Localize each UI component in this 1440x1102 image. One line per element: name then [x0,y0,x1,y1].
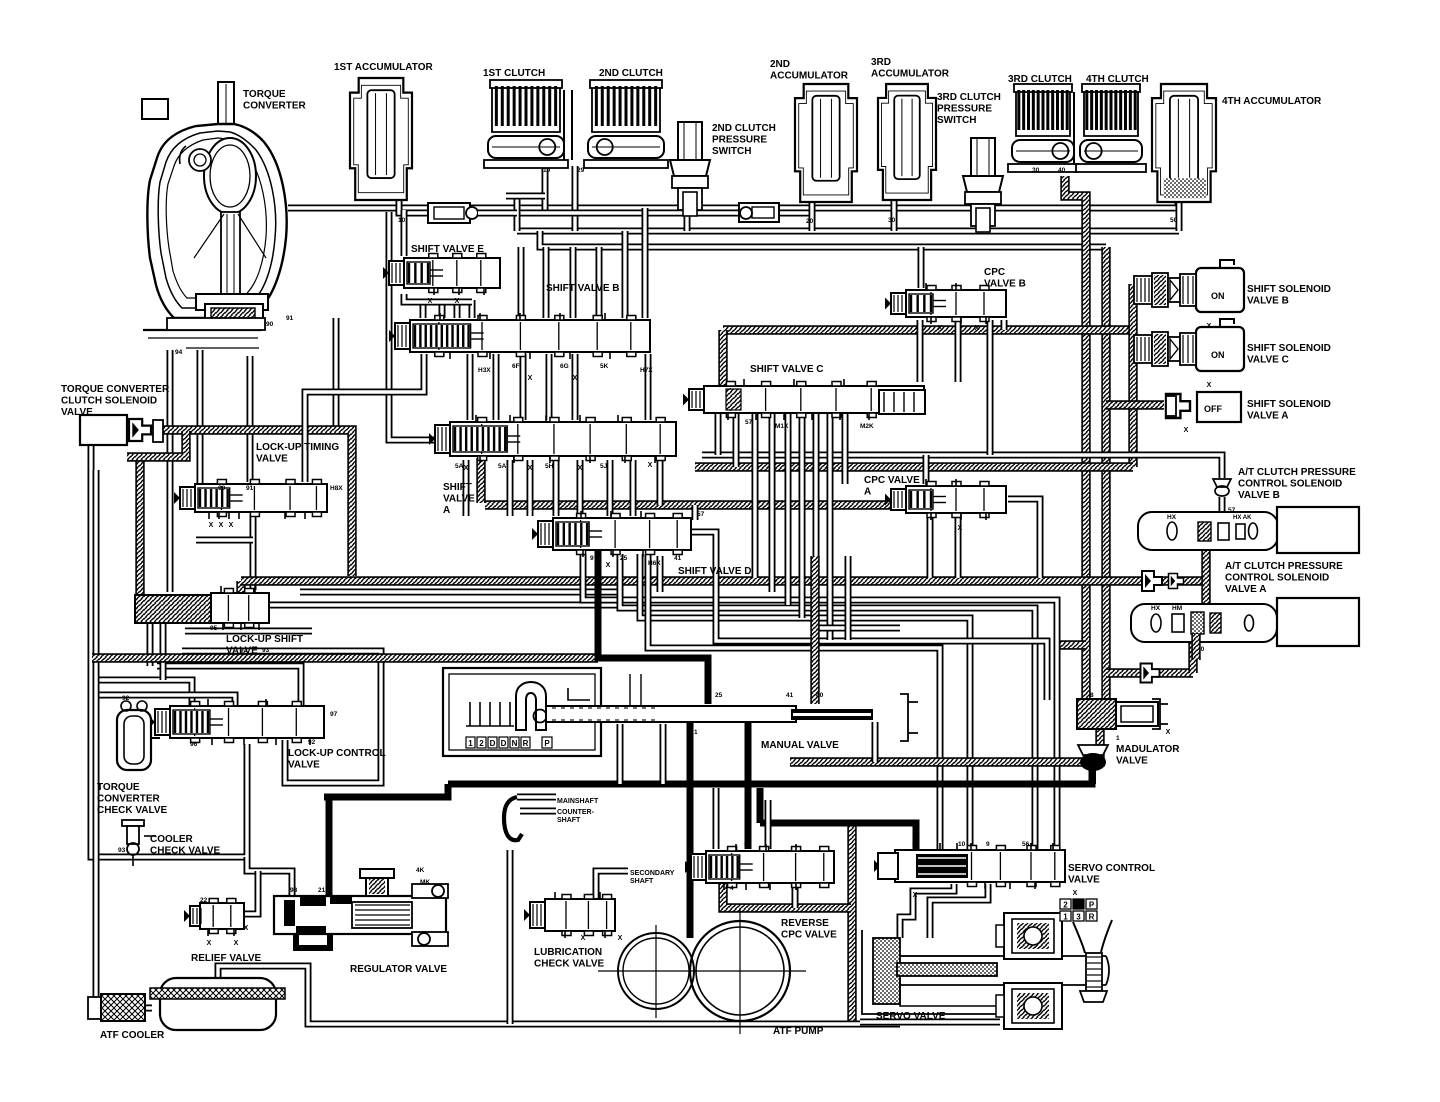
svg-text:X: X [464,465,469,472]
svg-text:SHIFT SOLENOID: SHIFT SOLENOID [1247,343,1331,354]
svg-text:CHECK VALVE: CHECK VALVE [150,846,221,857]
svg-text:SHIFT VALVE C: SHIFT VALVE C [750,364,824,375]
svg-text:1: 1 [468,739,473,748]
svg-text:20: 20 [806,218,814,225]
svg-text:X: X [234,940,239,947]
svg-text:A: A [864,487,871,498]
svg-text:2ND: 2ND [770,59,790,70]
svg-text:4: 4 [1076,901,1081,910]
svg-text:X: X [455,298,460,305]
svg-text:M2K: M2K [860,423,874,430]
svg-text:X: X [207,940,212,947]
svg-text:SHIFT VALVE D: SHIFT VALVE D [678,566,752,577]
svg-text:93: 93 [262,647,270,654]
svg-text:ATF PUMP: ATF PUMP [773,1026,824,1037]
svg-text:HX AK: HX AK [1233,515,1252,521]
svg-text:MANUAL VALVE: MANUAL VALVE [761,740,839,751]
svg-text:25: 25 [715,692,723,699]
svg-text:VALVE: VALVE [61,407,93,418]
svg-text:SERVO VALVE: SERVO VALVE [876,1011,946,1022]
svg-text:2ND CLUTCH: 2ND CLUTCH [712,123,776,134]
svg-text:92: 92 [308,739,316,746]
svg-text:A/T CLUTCH PRESSURE: A/T CLUTCH PRESSURE [1225,561,1343,572]
svg-text:X: X [1207,382,1212,389]
svg-text:41: 41 [786,692,794,699]
svg-text:X: X [573,375,578,382]
svg-text:8: 8 [1090,692,1094,699]
svg-text:3RD CLUTCH: 3RD CLUTCH [1008,74,1072,85]
svg-text:VALVE A: VALVE A [1225,584,1266,595]
svg-text:SHIFT VALVE B: SHIFT VALVE B [546,283,620,294]
svg-text:X: X [219,522,224,529]
svg-text:X: X [229,522,234,529]
svg-text:COOLER: COOLER [150,834,194,845]
svg-text:X: X [938,325,943,332]
svg-text:HX: HX [1167,514,1177,521]
svg-text:HM: HM [1172,605,1182,612]
svg-text:3RD: 3RD [871,57,891,68]
svg-text:MAINSHAFT: MAINSHAFT [557,798,599,805]
svg-text:H3X: H3X [478,367,491,374]
svg-text:X: X [428,298,433,305]
svg-text:SERVO CONTROL: SERVO CONTROL [1068,863,1155,874]
svg-text:REGULATOR VALVE: REGULATOR VALVE [350,964,447,975]
svg-text:93: 93 [118,847,126,854]
svg-text:ON: ON [1211,350,1225,360]
svg-text:ON: ON [1211,291,1225,301]
svg-text:57: 57 [745,419,753,426]
svg-text:A/T CLUTCH PRESSURE: A/T CLUTCH PRESSURE [1238,467,1356,478]
svg-text:X: X [606,562,611,569]
svg-text:21: 21 [318,887,326,894]
svg-text:SHIFT SOLENOID: SHIFT SOLENOID [1247,399,1331,410]
svg-text:CHECK VALVE: CHECK VALVE [534,959,605,970]
svg-text:2ND CLUTCH: 2ND CLUTCH [599,68,663,79]
svg-text:9: 9 [986,841,990,848]
svg-text:P: P [544,739,550,748]
svg-text:3: 3 [912,841,916,848]
svg-text:VALVE: VALVE [1116,756,1148,767]
svg-text:X: X [528,465,533,472]
svg-text:TORQUE: TORQUE [97,782,140,793]
svg-text:RELIEF VALVE: RELIEF VALVE [191,953,262,964]
svg-text:1: 1 [1063,913,1068,922]
svg-text:VALVE: VALVE [256,454,288,465]
svg-text:VALVE B: VALVE B [984,279,1026,290]
svg-text:COUNTER-: COUNTER- [557,809,595,816]
svg-text:CONVERTER: CONVERTER [97,794,161,805]
svg-text:VALVE A: VALVE A [1247,411,1288,422]
svg-text:95: 95 [210,625,218,632]
svg-text:CHECK VALVE: CHECK VALVE [97,805,168,816]
svg-text:LOCK-UP SHIFT: LOCK-UP SHIFT [226,634,303,645]
svg-text:VALVE: VALVE [443,494,475,505]
svg-text:PRESSURE: PRESSURE [712,135,767,146]
svg-text:VALVE B: VALVE B [1238,490,1280,501]
svg-text:3: 3 [1076,913,1081,922]
svg-text:3RD CLUTCH: 3RD CLUTCH [937,92,1001,103]
svg-text:40: 40 [1058,167,1066,174]
svg-text:2: 2 [479,739,484,748]
svg-text:X: X [1184,427,1189,434]
svg-text:5H: 5H [545,463,554,470]
svg-text:96: 96 [190,741,198,748]
svg-text:5A: 5A [455,463,464,470]
svg-text:6G: 6G [560,363,569,370]
svg-text:93: 93 [290,887,298,894]
svg-text:VALVE: VALVE [226,646,258,657]
svg-text:9: 9 [590,555,594,562]
svg-text:SHAFT: SHAFT [557,817,581,824]
svg-text:CONVERTER: CONVERTER [243,101,307,112]
svg-text:PRESSURE: PRESSURE [937,104,992,115]
svg-text:4K: 4K [416,867,425,874]
svg-text:92: 92 [122,695,130,702]
svg-text:CONTROL SOLENOID: CONTROL SOLENOID [1225,573,1329,584]
svg-text:ACCUMULATOR: ACCUMULATOR [770,71,849,82]
svg-text:X: X [913,892,918,899]
svg-text:X: X [648,462,653,469]
svg-text:57: 57 [697,511,705,518]
svg-text:1: 1 [694,729,698,736]
svg-text:X: X [581,935,586,942]
svg-text:CONTROL SOLENOID: CONTROL SOLENOID [1238,479,1342,490]
svg-text:SHIFT: SHIFT [443,482,472,493]
svg-text:40: 40 [816,692,824,699]
svg-text:X: X [958,525,963,532]
svg-text:91: 91 [286,315,294,322]
svg-text:D: D [501,739,507,748]
svg-text:30: 30 [1032,167,1040,174]
svg-text:6F: 6F [512,363,520,370]
svg-text:TORQUE CONVERTER: TORQUE CONVERTER [61,384,170,395]
svg-text:10: 10 [543,167,551,174]
svg-text:CPC VALVE: CPC VALVE [781,930,837,941]
svg-text:SHIFT VALVE E: SHIFT VALVE E [411,244,484,255]
svg-text:22: 22 [200,897,208,904]
svg-text:LOCK-UP CONTROL: LOCK-UP CONTROL [288,748,386,759]
svg-text:M1X: M1X [775,423,789,430]
svg-text:CLUTCH SOLENOID: CLUTCH SOLENOID [61,396,157,407]
svg-text:H7X: H7X [640,367,653,374]
svg-text:X: X [1207,323,1212,330]
svg-text:4TH ACCUMULATOR: 4TH ACCUMULATOR [1222,96,1322,107]
svg-text:ATF COOLER: ATF COOLER [100,1030,165,1041]
svg-text:56: 56 [1022,841,1030,848]
svg-text:5K: 5K [600,363,609,370]
svg-text:X: X [1073,890,1078,897]
svg-text:5: 5 [744,841,748,848]
svg-text:VALVE: VALVE [1068,875,1100,886]
svg-text:MK: MK [420,879,430,886]
svg-text:SWITCH: SWITCH [712,146,751,157]
svg-text:H8X: H8X [330,485,343,492]
svg-text:94: 94 [175,349,183,356]
svg-text:2: 2 [1063,901,1068,910]
svg-text:X: X [528,375,533,382]
svg-text:REVERSE: REVERSE [781,918,829,929]
svg-text:4TH CLUTCH: 4TH CLUTCH [1086,74,1149,85]
svg-text:5J: 5J [600,463,608,470]
svg-text:30: 30 [888,217,896,224]
svg-text:VALVE C: VALVE C [1247,355,1289,366]
svg-text:29: 29 [577,167,585,174]
svg-text:X: X [1166,729,1171,736]
svg-text:50: 50 [1170,217,1178,224]
svg-text:R: R [523,739,529,748]
svg-text:A: A [443,505,450,516]
svg-text:1: 1 [1116,735,1120,742]
svg-text:4: 4 [730,885,734,892]
svg-text:X: X [578,465,583,472]
svg-text:P: P [1089,901,1095,910]
svg-text:91: 91 [246,485,254,492]
svg-text:5A: 5A [498,463,507,470]
svg-text:57: 57 [1228,507,1236,514]
svg-text:1ST CLUTCH: 1ST CLUTCH [483,68,545,79]
svg-text:10: 10 [958,841,966,848]
svg-text:90: 90 [266,321,274,328]
svg-text:X: X [244,925,249,932]
svg-text:LOCK-UP TIMING: LOCK-UP TIMING [256,442,339,453]
svg-text:LUBRICATION: LUBRICATION [534,947,602,958]
svg-text:SHAFT: SHAFT [630,878,654,885]
svg-text:25: 25 [620,555,628,562]
svg-text:SECONDARY: SECONDARY [630,870,675,877]
svg-text:CPC VALVE: CPC VALVE [864,475,920,486]
svg-text:SHIFT SOLENOID: SHIFT SOLENOID [1247,284,1331,295]
svg-text:D: D [490,739,496,748]
svg-text:N: N [512,739,518,748]
svg-text:OFF: OFF [1204,404,1222,414]
svg-text:VALVE B: VALVE B [1247,296,1289,307]
svg-text:97: 97 [330,711,338,718]
svg-text:HX: HX [1151,605,1161,612]
svg-text:90: 90 [218,485,226,492]
svg-text:R: R [1089,913,1095,922]
svg-text:VALVE: VALVE [288,760,320,771]
svg-text:H6X: H6X [648,560,661,567]
svg-text:10: 10 [398,217,406,224]
svg-text:X: X [975,325,980,332]
svg-text:SWITCH: SWITCH [937,115,976,126]
svg-text:X: X [618,935,623,942]
svg-text:TORQUE: TORQUE [243,89,286,100]
svg-text:X: X [209,522,214,529]
svg-text:MADULATOR: MADULATOR [1116,744,1180,755]
svg-text:CPC: CPC [984,267,1005,278]
svg-text:41: 41 [674,555,682,562]
svg-text:ACCUMULATOR: ACCUMULATOR [871,69,950,80]
svg-text:1ST ACCUMULATOR: 1ST ACCUMULATOR [334,62,433,73]
